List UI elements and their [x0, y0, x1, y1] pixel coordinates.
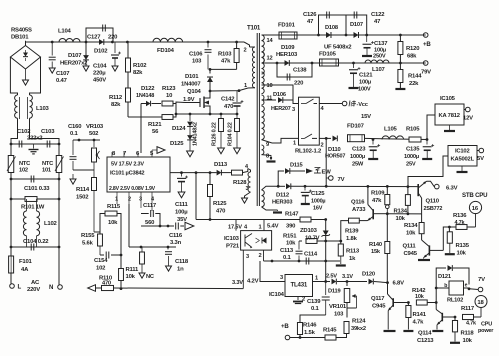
svg-text:82k: 82k [133, 70, 143, 76]
svg-text:Q110: Q110 [426, 199, 440, 205]
svg-text:3: 3 [292, 107, 295, 113]
svg-text:4.7k: 4.7k [413, 320, 425, 326]
svg-text:FD107: FD107 [347, 124, 365, 130]
svg-text:C111: C111 [175, 202, 189, 208]
svg-text:16V: 16V [313, 206, 323, 212]
svg-text:Q116: Q116 [351, 200, 365, 206]
svg-text:-Vcc: -Vcc [357, 102, 368, 108]
svg-text:R114: R114 [76, 187, 90, 193]
svg-text:R112: R112 [109, 95, 123, 101]
svg-text:103: 103 [334, 312, 344, 318]
svg-text:R135: R135 [456, 243, 470, 249]
svg-text:D119: D119 [328, 289, 341, 295]
svg-text:9: 9 [266, 142, 269, 148]
svg-text:2SB772: 2SB772 [424, 206, 443, 212]
svg-text:222x2: 222x2 [27, 136, 43, 142]
svg-text:56: 56 [152, 129, 159, 135]
svg-text:39kx2: 39kx2 [351, 326, 366, 332]
svg-text:6.3V: 6.3V [446, 186, 458, 192]
svg-text:103: 103 [192, 59, 202, 65]
svg-text:0.1: 0.1 [311, 306, 320, 312]
svg-text:power: power [478, 328, 494, 334]
svg-text:DB101: DB101 [11, 35, 29, 41]
svg-text:KA5002L: KA5002L [451, 157, 475, 163]
svg-text:C142: C142 [221, 97, 235, 103]
svg-text:R115: R115 [107, 204, 121, 210]
svg-text:R146: R146 [303, 323, 317, 329]
svg-text:1000µ: 1000µ [350, 154, 365, 160]
svg-text:15k: 15k [371, 249, 381, 255]
svg-text:D125: D125 [170, 141, 184, 147]
svg-text:Q104: Q104 [187, 89, 202, 95]
svg-text:C106: C106 [189, 52, 203, 58]
svg-text:R120: R120 [406, 46, 420, 52]
svg-text:L107: L107 [372, 67, 386, 73]
svg-text:5.6k: 5.6k [82, 241, 94, 247]
svg-text:470: 470 [102, 281, 111, 287]
svg-text:C116: C116 [169, 233, 183, 239]
svg-text:T101: T101 [247, 25, 261, 32]
svg-text:RL102-1.2: RL102-1.2 [295, 149, 322, 155]
svg-text:5V: 5V [477, 156, 484, 162]
svg-text:1N4148x2: 1N4148x2 [193, 122, 199, 146]
svg-text:VR103: VR103 [86, 124, 104, 130]
svg-text:R125: R125 [213, 201, 227, 207]
svg-text:1: 1 [259, 225, 262, 231]
svg-text:0.47: 0.47 [56, 78, 68, 84]
svg-text:1N4007: 1N4007 [181, 82, 201, 88]
svg-text:390: 390 [286, 224, 296, 230]
svg-text:IC104: IC104 [269, 292, 285, 298]
svg-text:4.7k: 4.7k [455, 220, 466, 226]
svg-text:R124: R124 [352, 319, 366, 325]
svg-text:D101: D101 [185, 74, 199, 80]
svg-text:D121: D121 [438, 274, 451, 280]
svg-text:HER207x2: HER207x2 [60, 61, 88, 67]
svg-text:1: 1 [244, 83, 247, 89]
svg-text:12V: 12V [463, 116, 473, 122]
svg-text:3: 3 [139, 197, 142, 203]
svg-text:C135: C135 [406, 147, 420, 153]
svg-text:5V 17.5V 2.3V: 5V 17.5V 2.3V [111, 162, 144, 168]
svg-text:R151: R151 [283, 234, 297, 240]
svg-text:16: 16 [472, 206, 479, 212]
svg-text:0.1: 0.1 [283, 255, 292, 261]
svg-text:R111: R111 [126, 267, 140, 273]
svg-text:3.3V: 3.3V [232, 280, 243, 286]
svg-text:D108: D108 [325, 25, 338, 31]
svg-text:10.7V: 10.7V [305, 236, 320, 242]
svg-text:Q111: Q111 [403, 244, 417, 250]
svg-text:1000µ: 1000µ [404, 154, 419, 160]
svg-text:10k: 10k [396, 216, 406, 222]
svg-text:R141: R141 [413, 312, 427, 318]
svg-text:R139: R139 [345, 229, 359, 235]
svg-text:15V: 15V [361, 114, 371, 120]
svg-text:R126 0.22: R126 0.22 [212, 122, 218, 146]
svg-text:1502: 1502 [76, 195, 89, 201]
svg-text:D109: D109 [281, 45, 295, 51]
svg-text:68k: 68k [407, 54, 417, 60]
svg-text:R105: R105 [406, 127, 420, 133]
svg-text:100µ: 100µ [175, 210, 188, 216]
svg-text:1k: 1k [349, 256, 356, 262]
svg-text:L102: L102 [44, 221, 58, 227]
svg-text:14: 14 [267, 38, 274, 44]
svg-text:IC101 µC3842: IC101 µC3842 [110, 171, 144, 177]
svg-text:IC105: IC105 [440, 96, 456, 102]
svg-text:12: 12 [267, 56, 273, 62]
svg-text:D112: D112 [276, 193, 290, 199]
svg-text:47k: 47k [221, 59, 231, 65]
svg-text:C122: C122 [371, 12, 385, 18]
svg-text:C114: C114 [304, 252, 318, 258]
svg-text:HER103: HER103 [276, 52, 298, 58]
svg-text:10k: 10k [406, 231, 416, 237]
svg-text:10: 10 [267, 83, 273, 89]
svg-text:FD105: FD105 [319, 52, 337, 58]
svg-text:FD101: FD101 [278, 23, 296, 29]
svg-text:KA 7812: KA 7812 [439, 113, 460, 119]
svg-text:L104: L104 [58, 29, 72, 35]
svg-text:L103: L103 [36, 106, 50, 112]
svg-text:R145: R145 [323, 328, 337, 334]
svg-text:C945: C945 [404, 251, 418, 257]
svg-text:L: L [18, 284, 22, 291]
svg-text:10k: 10k [126, 274, 136, 280]
svg-text:11: 11 [267, 96, 273, 102]
svg-text:4A: 4A [21, 267, 29, 273]
svg-text:A733: A733 [352, 207, 366, 213]
svg-text:2: 2 [259, 253, 262, 259]
svg-text:D124: D124 [172, 126, 186, 132]
svg-text:C137: C137 [374, 41, 388, 47]
svg-text:10k: 10k [286, 241, 296, 247]
svg-text:IC102: IC102 [455, 149, 469, 155]
svg-text:R144: R144 [408, 74, 422, 80]
svg-text:C107: C107 [56, 71, 70, 77]
svg-text:1: 1 [315, 276, 318, 282]
svg-text:AC: AC [31, 280, 40, 286]
svg-text:2: 2 [244, 48, 247, 54]
svg-text:502: 502 [89, 131, 99, 137]
svg-text:F101: F101 [19, 259, 33, 265]
svg-text:Q114: Q114 [418, 331, 432, 337]
svg-text:47: 47 [374, 19, 381, 25]
svg-text:R134: R134 [394, 209, 408, 215]
svg-text:10k: 10k [463, 338, 473, 344]
svg-text:450V: 450V [93, 78, 106, 84]
svg-text:D107: D107 [68, 53, 82, 59]
svg-text:+B: +B [281, 323, 289, 330]
svg-text:4.7k: 4.7k [466, 321, 477, 327]
svg-text:25V: 25V [406, 162, 416, 168]
svg-text:7V: 7V [478, 277, 485, 283]
svg-text:3: 3 [246, 186, 249, 192]
svg-text:10k: 10k [415, 294, 425, 300]
svg-text:2: 2 [128, 197, 131, 203]
svg-text:220: 220 [108, 35, 118, 41]
svg-text:+B: +B [423, 41, 431, 48]
svg-text:C113: C113 [280, 248, 294, 254]
svg-text:R147: R147 [285, 212, 299, 218]
svg-text:C945: C945 [372, 304, 386, 310]
svg-text:10: 10 [166, 93, 173, 99]
svg-text:D122: D122 [141, 86, 155, 92]
svg-text:D110: D110 [328, 147, 341, 153]
svg-text:C101 0.33: C101 0.33 [24, 186, 50, 192]
svg-text:D113: D113 [214, 162, 228, 168]
svg-text:D106: D106 [273, 92, 286, 98]
svg-text:470: 470 [224, 104, 234, 110]
svg-text:STB CPU: STB CPU [462, 192, 488, 199]
svg-text:10k: 10k [108, 220, 118, 226]
svg-text:3.1V: 3.1V [342, 274, 353, 280]
svg-text:18: 18 [477, 300, 484, 306]
svg-text:R136: R136 [453, 213, 467, 219]
svg-text:R134: R134 [404, 223, 418, 229]
svg-text:D115: D115 [290, 163, 303, 169]
svg-text:C104 0.22: C104 0.22 [23, 239, 49, 245]
svg-text:R117: R117 [461, 306, 475, 312]
svg-text:HOR507: HOR507 [325, 154, 345, 160]
svg-text:D107: D107 [350, 22, 363, 28]
svg-text:TL431: TL431 [291, 282, 308, 289]
svg-text:Q117: Q117 [371, 296, 385, 302]
svg-text:C138: C138 [293, 68, 307, 74]
svg-text:NTC: NTC [19, 161, 30, 167]
svg-text:1.5k: 1.5k [304, 330, 316, 336]
svg-text:101: 101 [42, 168, 51, 174]
svg-text:N: N [49, 284, 53, 291]
svg-text:C126: C126 [303, 12, 317, 18]
svg-text:25W: 25W [352, 162, 364, 168]
svg-text:8: 8 [266, 154, 269, 160]
svg-text:1.8k: 1.8k [346, 236, 358, 242]
svg-text:100µ: 100µ [359, 80, 371, 86]
svg-text:R121: R121 [148, 122, 162, 128]
svg-text:C121: C121 [359, 73, 373, 79]
svg-text:D120: D120 [362, 272, 375, 278]
svg-text:17.5V: 17.5V [228, 225, 242, 231]
svg-text:HER303: HER303 [272, 200, 292, 206]
svg-text:7V: 7V [338, 177, 345, 183]
svg-text:6.8V: 6.8V [393, 281, 405, 287]
svg-text:220: 220 [294, 81, 304, 87]
svg-text:C125: C125 [311, 191, 325, 197]
svg-text:FD104: FD104 [157, 48, 175, 54]
svg-text:22k: 22k [409, 81, 419, 87]
svg-text:C103: C103 [41, 129, 55, 135]
svg-text:C160: C160 [68, 124, 82, 130]
svg-text:1: 1 [293, 141, 296, 147]
svg-text:102: 102 [96, 266, 106, 272]
svg-text:ZD103: ZD103 [300, 228, 318, 234]
svg-text:0.1: 0.1 [70, 131, 79, 137]
svg-text:79V: 79V [421, 70, 431, 76]
svg-text:NTC: NTC [42, 161, 53, 167]
svg-text:5.4V: 5.4V [267, 224, 279, 230]
svg-text:D102: D102 [94, 49, 108, 55]
svg-text:3.3n: 3.3n [170, 240, 182, 246]
svg-text:RS405S: RS405S [11, 28, 32, 34]
svg-text:HER207: HER207 [271, 106, 291, 112]
svg-text:R109: R109 [371, 191, 385, 197]
svg-text:47: 47 [307, 19, 314, 25]
svg-text:560: 560 [145, 220, 155, 226]
svg-text:R101 1W: R101 1W [21, 205, 45, 211]
svg-text:RL102: RL102 [447, 298, 463, 304]
svg-text:100V: 100V [358, 87, 371, 93]
svg-text:VR101: VR101 [329, 304, 347, 310]
svg-text:2.5V: 2.5V [326, 274, 337, 280]
svg-text:47k: 47k [372, 198, 382, 204]
svg-text:R118: R118 [461, 331, 475, 337]
svg-text:2.8V 2.5V 0.08V 1.9V: 2.8V 2.5V 0.08V 1.9V [109, 186, 156, 192]
svg-text:102: 102 [19, 168, 28, 174]
svg-text:C139: C139 [307, 299, 321, 305]
svg-text:220V: 220V [27, 287, 40, 293]
svg-text:R113: R113 [346, 249, 360, 255]
svg-text:C104: C104 [93, 64, 107, 70]
svg-text:3: 3 [280, 275, 283, 281]
svg-text:UF 5408x2: UF 5408x2 [324, 45, 352, 51]
svg-text:1000µ: 1000µ [311, 199, 325, 205]
svg-text:C118: C118 [175, 259, 189, 265]
svg-text:L105: L105 [384, 127, 398, 133]
svg-text:10k: 10k [457, 251, 467, 257]
svg-text:CPU: CPU [481, 322, 492, 328]
svg-text:C1213: C1213 [417, 338, 434, 344]
svg-text:3: 3 [246, 254, 249, 260]
svg-text:R103: R103 [218, 52, 232, 58]
svg-text:C102: C102 [17, 129, 31, 135]
svg-text:82k: 82k [111, 102, 121, 108]
svg-text:1N4148: 1N4148 [136, 93, 154, 99]
svg-text:NC: NC [146, 274, 154, 280]
svg-text:220µ: 220µ [93, 71, 106, 77]
svg-text:R140: R140 [369, 242, 382, 248]
svg-text:1: 1 [115, 197, 118, 203]
svg-text:R155: R155 [81, 233, 95, 239]
svg-text:R104 0.22: R104 0.22 [228, 122, 234, 146]
svg-text:250V: 250V [373, 54, 386, 60]
svg-text:R123: R123 [162, 86, 176, 92]
svg-text:35V: 35V [177, 217, 187, 223]
svg-text:IC103: IC103 [224, 236, 240, 242]
svg-text:C117: C117 [143, 203, 157, 209]
svg-text:470: 470 [216, 209, 226, 215]
svg-text:C123: C123 [352, 147, 366, 153]
svg-text:R102: R102 [133, 63, 147, 69]
svg-text:4.2V: 4.2V [247, 279, 259, 285]
svg-text:C154: C154 [94, 258, 108, 264]
svg-text:P721: P721 [226, 244, 240, 250]
svg-text:1n: 1n [177, 267, 184, 273]
